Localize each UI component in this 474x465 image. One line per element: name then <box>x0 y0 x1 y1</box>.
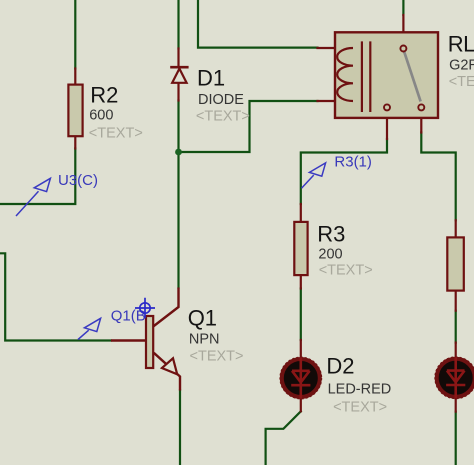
svg-text:LED-RED: LED-RED <box>328 382 392 398</box>
wire top feed to D1 <box>177 0 179 49</box>
svg-text:200: 200 <box>318 247 342 263</box>
node label U3(C) <box>16 178 50 216</box>
relay coil <box>337 48 353 101</box>
wire left edge to Q1 base <box>0 253 111 340</box>
pin R4.2 <box>455 291 457 311</box>
svg-text:D1: D1 <box>197 66 225 91</box>
relay core <box>362 41 370 112</box>
svg-text:Q1: Q1 <box>188 306 217 331</box>
pin relay NO left <box>386 111 388 139</box>
svg-text:600: 600 <box>89 107 113 123</box>
svg-text:D2: D2 <box>326 354 354 379</box>
svg-text:R2: R2 <box>90 82 118 107</box>
Q1 collector <box>153 288 178 327</box>
node label R3(1) <box>302 163 326 188</box>
svg-text:<TEXT>: <TEXT> <box>190 349 244 365</box>
resistor R2 <box>68 82 142 141</box>
transistor Q1 <box>111 288 244 391</box>
pin relay NO right <box>420 111 422 133</box>
Q1 base pin <box>111 339 146 341</box>
relay contact right <box>418 104 424 110</box>
wire top feed to R2 <box>74 0 76 69</box>
pin relay pole <box>402 15 404 45</box>
wire top feed to relay coil top <box>198 0 318 48</box>
wire D1 anode to junction <box>177 101 179 153</box>
svg-text:<TEXT>: <TEXT> <box>319 263 373 279</box>
svg-text:<TEXT>: <TEXT> <box>196 109 250 125</box>
svg-text:<TEXT>: <TEXT> <box>449 74 474 90</box>
svg-text:NPN: NPN <box>189 332 220 348</box>
node label Q1(B) <box>78 318 101 339</box>
wire D2 cathode to bottom edge <box>266 411 301 465</box>
svg-text:RL1: RL1 <box>448 31 474 56</box>
pin D3 anode <box>455 343 457 359</box>
pin D1 cathode <box>177 49 179 68</box>
wire R4 to D3 <box>455 311 457 343</box>
pin D2 cathode <box>300 399 302 412</box>
wire relay pin to R4 <box>421 133 455 221</box>
pin R3.2 <box>300 275 302 289</box>
pin relay coil 2 <box>318 100 354 102</box>
wire R2 bottom to left edge <box>0 149 75 205</box>
svg-text:U3(C): U3(C) <box>58 172 98 189</box>
pin R2.1 <box>74 69 76 86</box>
origin marker at Q1 <box>135 298 155 319</box>
relay RL1 <box>335 31 474 118</box>
pin D3 cathode <box>455 398 457 412</box>
wire D3 cathode to bottom edge <box>455 412 457 465</box>
wire relay pin to R3 <box>301 139 387 204</box>
wire junction to relay coil bottom <box>179 101 318 152</box>
svg-text:R3(1): R3(1) <box>334 154 372 171</box>
wire Q1 emitter to bottom edge <box>179 391 181 465</box>
wire junction down to Q1 collector <box>177 152 179 288</box>
svg-text:DIODE: DIODE <box>198 92 244 108</box>
pin D2 anode <box>300 340 302 358</box>
pin relay coil 1 <box>318 47 354 49</box>
pin R4.1 <box>455 220 457 237</box>
resistor R3 <box>294 221 372 278</box>
Q1 base bar <box>146 316 153 368</box>
resistor R4 <box>447 237 464 290</box>
Q1 emitter arrow <box>162 358 177 374</box>
wire R3 to D2 <box>300 289 302 341</box>
pin R3.1 <box>300 204 302 222</box>
svg-text:<TEXT>: <TEXT> <box>333 399 387 415</box>
diode D1 <box>170 66 250 125</box>
svg-text:R3: R3 <box>317 221 345 246</box>
junction node at D1 anode <box>175 149 182 156</box>
wire top feed to relay switch pole <box>402 0 404 15</box>
pin D1 anode <box>177 83 179 101</box>
relay contact pole <box>400 46 406 52</box>
svg-text:G2R-14: G2R-14 <box>449 57 474 73</box>
LED D2 <box>280 354 391 416</box>
relay contact left <box>384 104 390 110</box>
svg-text:<TEXT>: <TEXT> <box>89 126 143 142</box>
pin R2.2 <box>74 136 76 149</box>
Q1 emitter <box>154 353 180 391</box>
relay blade <box>404 52 420 102</box>
LED D3 <box>435 357 474 398</box>
